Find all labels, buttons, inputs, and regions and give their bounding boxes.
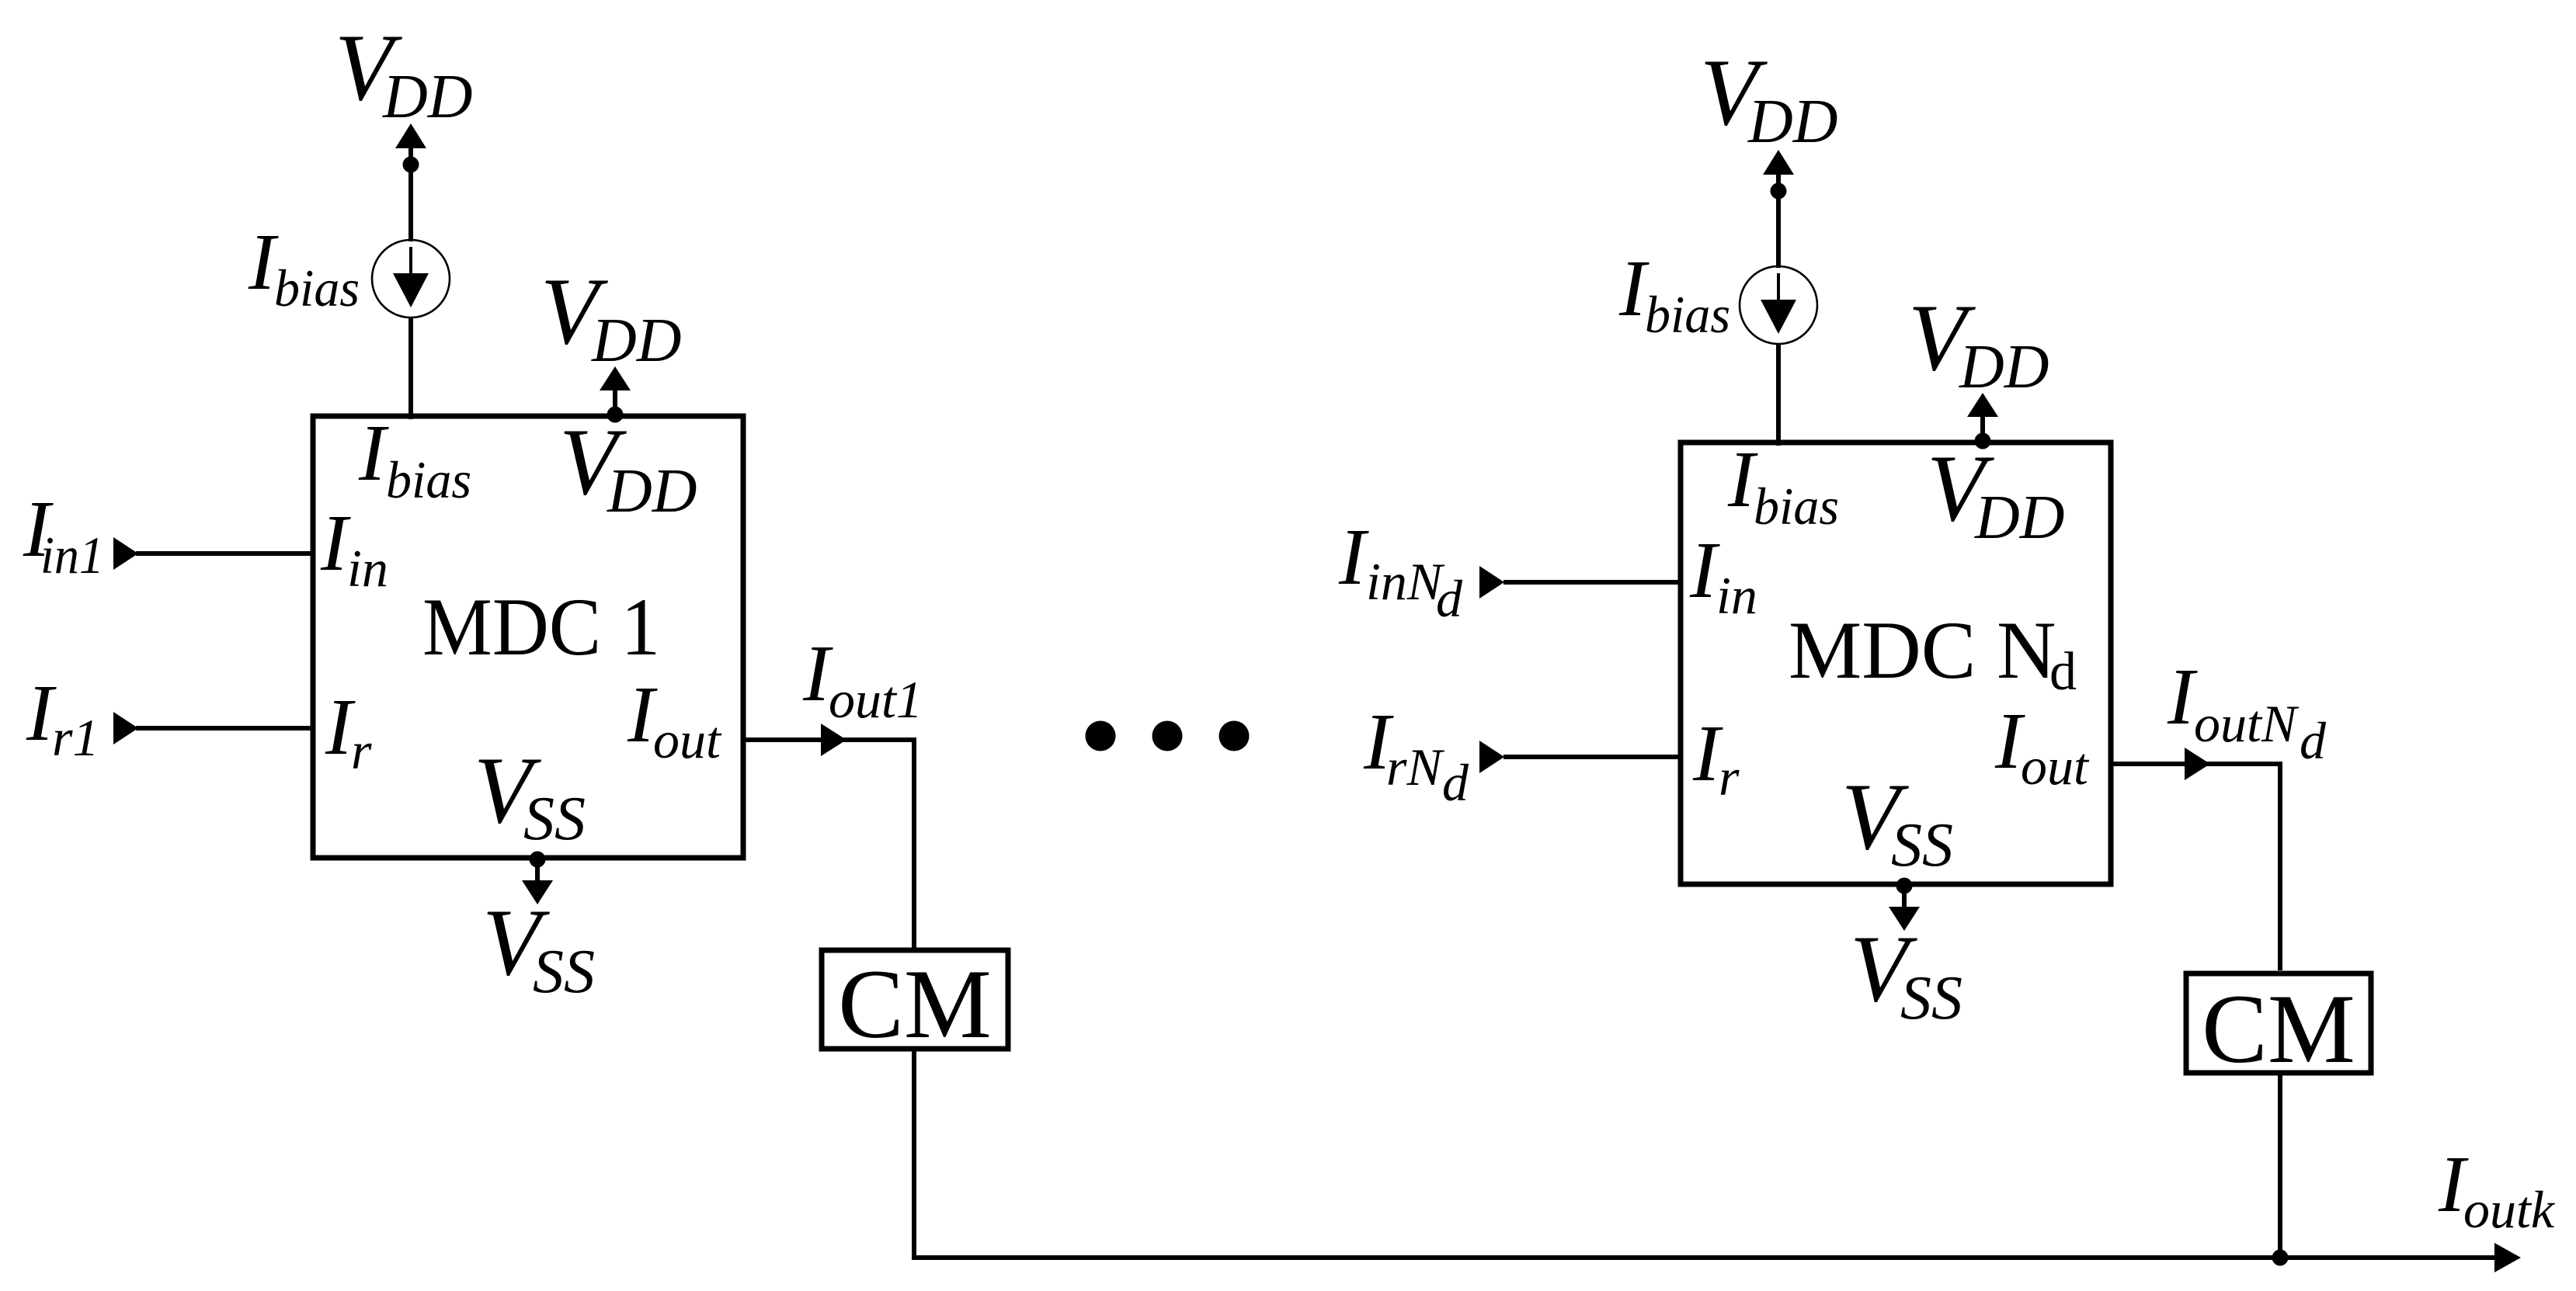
pin Iout label (inside box) <box>627 670 722 769</box>
node VSS label below right box <box>1850 915 1962 1032</box>
wire IoutNd from MDC Nd <box>2111 748 2280 780</box>
svg-text:bias: bias <box>386 450 471 509</box>
svg-text:out: out <box>2021 737 2090 796</box>
pin VSS label (inside box) <box>474 737 586 853</box>
IoutNd label <box>2167 652 2327 770</box>
current source Ibias (circle with down arrow) <box>372 240 450 318</box>
svg-text:inN: inN <box>1366 552 1445 611</box>
svg-text:DD: DD <box>607 457 697 526</box>
input Iin1 label <box>23 484 104 585</box>
wire Iout1 from MDC1 <box>743 724 914 756</box>
wire down to CM1 <box>912 737 916 948</box>
CM2 label <box>2202 975 2355 1084</box>
svg-text:r: r <box>1719 748 1740 807</box>
wire VDD to current source <box>408 144 413 241</box>
svg-text:SS: SS <box>523 785 586 853</box>
wire current source to MDC1 box <box>408 318 413 419</box>
MDC Nd box <box>1681 442 2111 884</box>
MDC 1 box <box>313 416 743 858</box>
junction dot <box>2272 1250 2289 1266</box>
wire Iin1 with arrowhead <box>113 537 313 570</box>
svg-text:bias: bias <box>1754 477 1839 536</box>
VDD pin arrow on box top <box>600 366 631 423</box>
VSS pin dot and arrow below box <box>522 852 553 905</box>
wire CM1 down to output line <box>912 1051 916 1260</box>
output arrowhead <box>2494 1243 2521 1272</box>
svg-text:DD: DD <box>1959 333 2049 401</box>
svg-text:bias: bias <box>274 259 360 318</box>
MDC Nd title <box>1789 605 2077 702</box>
svg-text:I: I <box>1338 512 1369 602</box>
node VSS label below box <box>482 889 595 1006</box>
current source Ibias (right) <box>1740 266 1817 344</box>
dots (continuation) <box>1086 721 1250 751</box>
svg-text:bias: bias <box>1645 285 1730 344</box>
svg-text:MDC N: MDC N <box>1789 605 2056 696</box>
pin VDD label (inside right box) <box>1927 435 2065 552</box>
svg-text:DD: DD <box>1974 484 2065 552</box>
svg-text:in: in <box>1716 566 1757 625</box>
svg-text:SS: SS <box>533 938 595 1006</box>
wire CM2 down to output line <box>2278 1073 2282 1260</box>
svg-text:DD: DD <box>591 307 682 375</box>
svg-text:CM: CM <box>838 950 992 1059</box>
svg-text:outN: outN <box>2194 694 2300 753</box>
pin VDD label (inside box) <box>559 408 697 526</box>
Ioutk label <box>2438 1140 2556 1239</box>
node VDD (top left) label <box>335 14 473 131</box>
svg-text:in: in <box>347 539 388 598</box>
input IinNd label <box>1338 512 1463 628</box>
VDD arrow (top left) <box>395 123 426 148</box>
CM1 box <box>822 950 1008 1049</box>
Ibias label (left of current source) <box>248 217 360 318</box>
svg-text:rN: rN <box>1386 737 1444 796</box>
svg-text:I: I <box>320 498 351 588</box>
pin Iout label (inside right box) <box>1994 696 2090 796</box>
pin Ibias label (inside box) <box>358 408 471 509</box>
svg-text:d: d <box>2049 642 2077 702</box>
svg-text:d: d <box>1442 753 1469 812</box>
pin VSS label (inside right box) <box>1841 763 1953 880</box>
VSS pin dot and arrow below right box <box>1889 878 1920 932</box>
svg-text:DD: DD <box>1747 88 1838 156</box>
node VDD label above right box pin <box>1908 284 2049 401</box>
pin Ir label (inside right box) <box>1692 709 1740 807</box>
CM2 box <box>2186 973 2371 1073</box>
svg-text:in1: in1 <box>40 526 104 585</box>
svg-text:MDC 1: MDC 1 <box>422 581 660 672</box>
node VDD label above box pin <box>541 258 682 375</box>
pin Iin label (inside box) <box>320 498 388 598</box>
VDD arrow (top right) <box>1763 150 1794 175</box>
svg-text:SS: SS <box>1891 811 1953 880</box>
input Ir1 label <box>26 668 99 767</box>
svg-text:I: I <box>358 408 389 498</box>
MDC 1 title <box>422 581 660 672</box>
svg-text:SS: SS <box>1900 964 1962 1032</box>
wire down to CM2 <box>2278 762 2282 970</box>
svg-text:r: r <box>351 721 372 780</box>
svg-text:I: I <box>2167 652 2198 741</box>
VDD pin arrow on right box top <box>1967 393 1998 449</box>
svg-text:d: d <box>2300 711 2327 770</box>
svg-text:d: d <box>1436 569 1463 628</box>
wire IinNd with arrowhead <box>1479 566 1681 599</box>
pin Ibias label (inside right box) <box>1727 435 1839 536</box>
wire VDD to current source (right) <box>1776 170 1781 268</box>
Iout1 label <box>802 629 923 729</box>
svg-text:out1: out1 <box>829 670 923 729</box>
node dot on VDD wire <box>403 157 419 173</box>
input IrNd label <box>1363 697 1469 812</box>
svg-text:r1: r1 <box>52 708 99 767</box>
svg-text:outk: outk <box>2463 1180 2556 1239</box>
wire Ir1 with arrowhead <box>113 712 313 744</box>
svg-text:out: out <box>653 710 722 769</box>
output summing wire <box>912 1255 2497 1260</box>
pin Ir label (inside box) <box>325 682 372 780</box>
CM1 label <box>838 950 992 1059</box>
svg-text:DD: DD <box>382 63 473 131</box>
svg-text:CM: CM <box>2202 975 2355 1084</box>
pin Iin label (inside right box) <box>1689 526 1757 625</box>
node VDD (top right) label <box>1700 39 1838 156</box>
Ibias label (right block) <box>1618 244 1730 344</box>
node dot on VDD wire (right) <box>1771 183 1787 200</box>
wire current source to MDC Nd box <box>1776 344 1781 446</box>
wire IrNd with arrowhead <box>1479 741 1681 773</box>
svg-text:I: I <box>1689 526 1720 615</box>
